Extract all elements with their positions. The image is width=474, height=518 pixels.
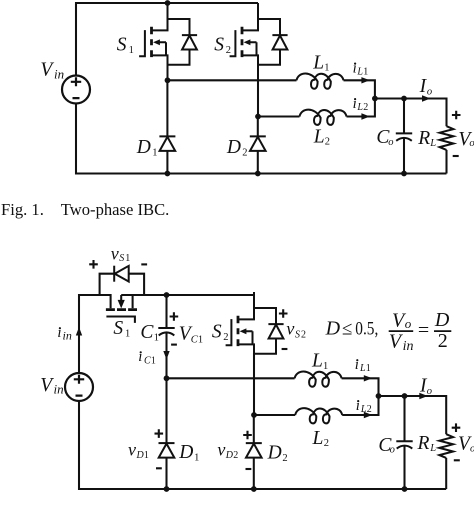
svg-text:L: L bbox=[429, 443, 436, 454]
svg-text:o: o bbox=[470, 443, 474, 454]
svg-text:in: in bbox=[54, 66, 64, 81]
svg-text:in: in bbox=[63, 328, 72, 342]
svg-text:2: 2 bbox=[367, 404, 372, 415]
svg-text:R: R bbox=[417, 433, 430, 454]
svg-text:o: o bbox=[427, 386, 432, 397]
svg-text:L: L bbox=[313, 127, 325, 148]
svg-text:2: 2 bbox=[233, 450, 238, 461]
svg-text:=: = bbox=[418, 319, 429, 341]
svg-text:S: S bbox=[117, 35, 127, 56]
svg-text:D: D bbox=[325, 317, 341, 339]
svg-text:1: 1 bbox=[129, 45, 134, 56]
svg-text:1: 1 bbox=[198, 334, 203, 345]
svg-text:Two-phase IBC.: Two-phase IBC. bbox=[61, 200, 170, 219]
svg-text:v: v bbox=[111, 243, 119, 263]
svg-text:2: 2 bbox=[363, 102, 368, 113]
svg-text:o: o bbox=[469, 138, 474, 149]
svg-text:S: S bbox=[113, 318, 123, 339]
svg-text:C: C bbox=[140, 322, 154, 343]
svg-text:D: D bbox=[267, 443, 282, 464]
svg-text:v: v bbox=[128, 440, 136, 460]
svg-text:1: 1 bbox=[144, 450, 149, 461]
svg-text:D: D bbox=[434, 309, 450, 331]
svg-text:2: 2 bbox=[282, 453, 287, 464]
svg-text:0.5,: 0.5, bbox=[355, 318, 378, 339]
svg-text:D: D bbox=[136, 137, 151, 158]
svg-text:1: 1 bbox=[125, 253, 130, 264]
svg-text:V: V bbox=[40, 60, 54, 81]
svg-text:D: D bbox=[226, 137, 241, 158]
svg-text:2: 2 bbox=[324, 438, 329, 449]
svg-text:L: L bbox=[312, 428, 324, 449]
svg-text:S: S bbox=[212, 321, 222, 342]
svg-text:1: 1 bbox=[323, 361, 328, 372]
svg-text:2: 2 bbox=[301, 329, 306, 340]
svg-text:1: 1 bbox=[366, 363, 371, 374]
svg-text:2: 2 bbox=[325, 137, 330, 148]
svg-text:o: o bbox=[427, 86, 432, 97]
svg-text:S: S bbox=[119, 253, 124, 264]
svg-text:in: in bbox=[54, 382, 64, 397]
svg-text:v: v bbox=[286, 319, 294, 339]
svg-text:L: L bbox=[429, 138, 436, 149]
svg-text:1: 1 bbox=[125, 329, 130, 340]
svg-text:o: o bbox=[388, 137, 393, 148]
svg-text:in: in bbox=[403, 339, 414, 354]
svg-text:1: 1 bbox=[324, 63, 329, 74]
svg-text:2: 2 bbox=[242, 147, 247, 158]
svg-text:S: S bbox=[214, 35, 224, 56]
svg-text:L: L bbox=[312, 53, 324, 74]
svg-text:1: 1 bbox=[194, 452, 199, 463]
svg-text:1: 1 bbox=[151, 355, 156, 366]
svg-text:R: R bbox=[417, 128, 430, 149]
svg-text:≤: ≤ bbox=[342, 318, 352, 339]
svg-text:2: 2 bbox=[438, 330, 448, 352]
svg-text:1: 1 bbox=[152, 147, 157, 158]
svg-text:D: D bbox=[178, 442, 193, 463]
svg-text:o: o bbox=[405, 316, 412, 331]
svg-text:L: L bbox=[311, 351, 323, 372]
svg-text:2: 2 bbox=[223, 332, 228, 343]
svg-text:v: v bbox=[217, 440, 225, 460]
svg-text:1: 1 bbox=[363, 66, 368, 77]
svg-text:o: o bbox=[390, 445, 395, 456]
svg-text:Fig. 1.: Fig. 1. bbox=[1, 200, 44, 219]
svg-text:V: V bbox=[40, 375, 54, 396]
svg-text:S: S bbox=[295, 329, 300, 340]
svg-text:2: 2 bbox=[226, 45, 231, 56]
svg-text:1: 1 bbox=[154, 333, 159, 344]
